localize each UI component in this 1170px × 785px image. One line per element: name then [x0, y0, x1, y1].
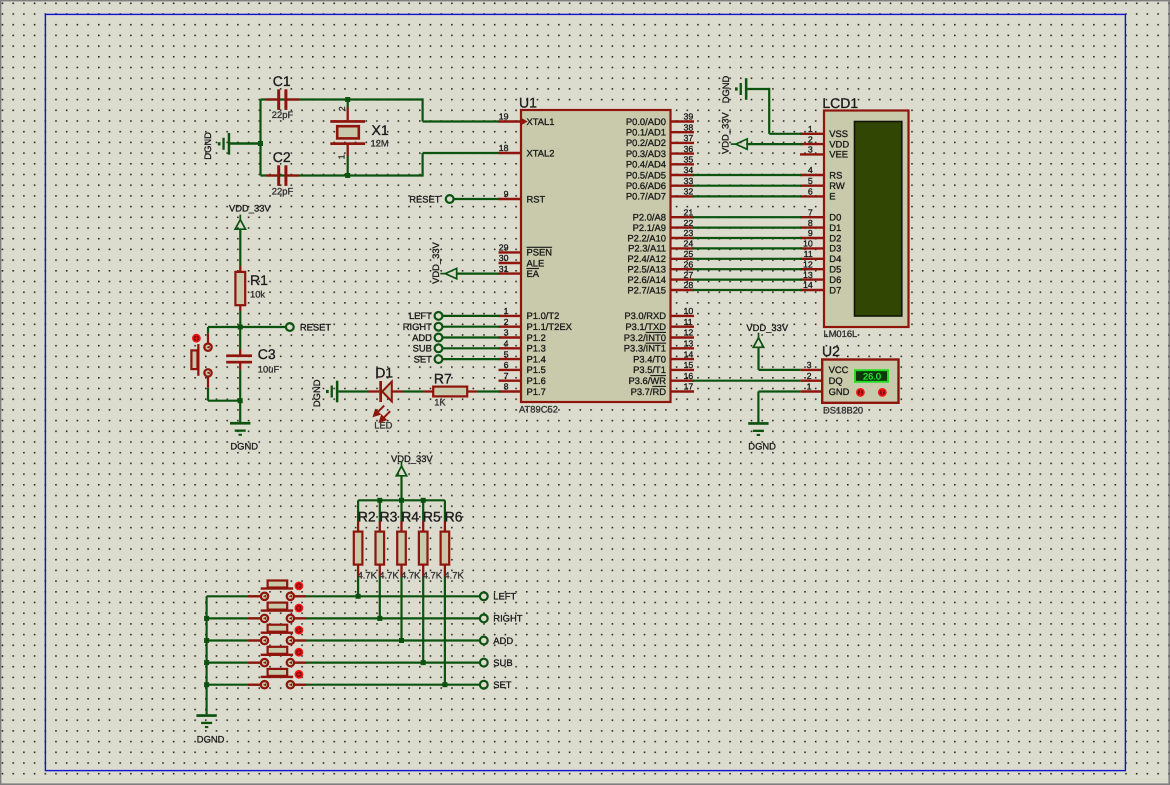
svg-text:12: 12	[803, 259, 813, 269]
node junction C3/button/ground	[238, 398, 243, 403]
node junction X1 pin2 / top wire	[345, 97, 350, 102]
svg-text:6: 6	[504, 360, 509, 370]
svg-text:P1.5: P1.5	[527, 364, 546, 375]
indicator red dot of ADD button	[295, 626, 304, 635]
svg-text:11: 11	[684, 317, 693, 327]
svg-text:15: 15	[684, 360, 694, 370]
svg-text:R2: R2	[358, 509, 376, 525]
U2 decrement button	[856, 388, 865, 397]
svg-text:RST: RST	[527, 193, 546, 204]
svg-text:5: 5	[504, 349, 509, 359]
svg-text:P2.4/A12: P2.4/A12	[627, 253, 666, 264]
svg-text:P3.4/T0: P3.4/T0	[633, 353, 666, 364]
wire U1 P3.6 to U2 DQ	[693, 380, 801, 382]
wires U1 P0.5-P0.7 to LCD RS/RW/E	[693, 174, 803, 176]
svg-text:9: 9	[504, 189, 509, 199]
svg-text:4: 4	[504, 339, 509, 349]
wire row SET (button to terminal)	[294, 684, 480, 686]
wire net XTAL2 bottom (C2 to corner to U1.XTAL2)	[261, 174, 423, 176]
resistor R6 4.7K	[444, 500, 446, 521]
svg-text:P0.4/AD4: P0.4/AD4	[626, 159, 666, 170]
svg-text:38: 38	[684, 122, 694, 132]
svg-text:LEFT: LEFT	[409, 310, 432, 321]
indicator red dot of reset button	[192, 334, 201, 343]
svg-text:DQ: DQ	[829, 375, 843, 386]
svg-text:28: 28	[684, 280, 694, 290]
svg-text:1: 1	[337, 154, 347, 159]
wire VDD bus above R2-R6	[358, 499, 445, 501]
node junction R5 to row	[421, 660, 426, 665]
svg-text:P2.0/A8: P2.0/A8	[633, 212, 666, 223]
svg-text:P0.6/AD6: P0.6/AD6	[626, 180, 666, 191]
svg-text:DGND: DGND	[311, 379, 322, 407]
svg-text:D2: D2	[829, 232, 841, 243]
svg-text:VDD_33V: VDD_33V	[229, 202, 271, 213]
svg-text:D6: D6	[829, 274, 841, 285]
svg-text:X1: X1	[372, 122, 389, 138]
wire net XTAL1 top (C1 to corner to U1.XTAL1)	[261, 98, 423, 100]
ground DGND (above LCD1)	[745, 78, 748, 100]
pushbutton ADD	[248, 639, 261, 641]
wire row LEFT (button to terminal)	[294, 595, 480, 597]
svg-text:10: 10	[684, 306, 694, 316]
svg-text:LEFT: LEFT	[493, 591, 516, 602]
svg-text:4: 4	[808, 165, 813, 175]
svg-text:D1: D1	[375, 364, 393, 380]
svg-text:R7: R7	[434, 370, 452, 386]
wire left button bus	[206, 596, 208, 714]
svg-text:12M: 12M	[371, 137, 389, 148]
svg-text:U2: U2	[822, 343, 840, 359]
wire D1 to R7	[403, 390, 425, 392]
wire row RIGHT (bus to button)	[207, 617, 262, 619]
svg-text:14: 14	[803, 280, 813, 290]
svg-text:17: 17	[684, 382, 694, 392]
svg-text:18: 18	[499, 143, 509, 153]
svg-text:9: 9	[808, 228, 813, 238]
LCD LCD1 LM016L body	[824, 111, 909, 328]
terminal RIGHT	[480, 615, 488, 623]
wire U2 GND to ground	[758, 390, 800, 392]
svg-text:26: 26	[684, 259, 694, 269]
svg-text:P1.2: P1.2	[527, 332, 546, 343]
svg-text:3: 3	[504, 328, 509, 338]
resistor R3 4.7K	[379, 500, 381, 521]
svg-text:24: 24	[684, 239, 694, 249]
svg-text:P3.5/T1: P3.5/T1	[633, 364, 666, 375]
LCD1 pins 1-14 with names	[800, 133, 824, 135]
svg-text:26.0: 26.0	[863, 372, 881, 382]
svg-text:5: 5	[808, 176, 813, 186]
svg-text:P0.3/AD3: P0.3/AD3	[626, 148, 666, 159]
clock input arrow at XTAL1	[522, 118, 528, 124]
terminal SUB	[480, 659, 488, 667]
resistor R5 4.7K	[422, 500, 424, 521]
terminal LEFT	[480, 592, 488, 600]
svg-text:SUB: SUB	[493, 657, 512, 668]
ground DGND (left of C1/C2)	[230, 142, 261, 144]
svg-text:P0.5/AD5: P0.5/AD5	[626, 169, 666, 180]
svg-text:23: 23	[684, 228, 694, 238]
svg-text:4.7K: 4.7K	[379, 570, 399, 581]
indicator red dot of SUB button	[295, 648, 304, 657]
svg-text:AT89C52: AT89C52	[519, 404, 558, 415]
node junction C1/C2/DGND	[258, 141, 263, 146]
svg-text:R6: R6	[445, 509, 463, 525]
capacitor C1	[266, 98, 277, 100]
svg-text:13: 13	[803, 270, 813, 280]
svg-text:RESET: RESET	[300, 321, 332, 332]
microcontroller U1 AT89C52 body	[521, 110, 671, 402]
svg-text:D7: D7	[829, 284, 841, 295]
crystal X1	[347, 100, 349, 108]
svg-text:10: 10	[803, 239, 813, 249]
svg-text:VDD_33V: VDD_33V	[391, 453, 433, 464]
svg-text:RIGHT: RIGHT	[403, 321, 432, 332]
ground DGND (below U2)	[748, 422, 768, 425]
indicator red dot of LEFT button	[295, 582, 304, 591]
svg-text:7: 7	[808, 207, 813, 217]
wire row ADD (button to terminal)	[294, 639, 480, 641]
svg-text:3: 3	[807, 360, 812, 370]
svg-text:P2.1/A9: P2.1/A9	[633, 222, 666, 233]
node junction X1 pin1 / bottom wire	[345, 173, 350, 178]
svg-text:R5: R5	[423, 509, 441, 525]
svg-text:PSEN: PSEN	[527, 247, 553, 258]
indicator red dot of RIGHT button	[295, 604, 304, 613]
svg-text:XTAL2: XTAL2	[527, 147, 555, 158]
svg-text:P2.5/A13: P2.5/A13	[627, 264, 666, 275]
pushbutton (reset, vertical)	[207, 327, 209, 333]
svg-text:P2.3/A11: P2.3/A11	[628, 243, 666, 254]
svg-text:D1: D1	[829, 222, 841, 233]
wire row SUB (bus to button)	[207, 661, 262, 663]
wire row LEFT (bus to button)	[207, 595, 262, 597]
svg-text:ADD: ADD	[493, 635, 513, 646]
ground DGND (bottom left)	[196, 714, 216, 717]
svg-text:2: 2	[808, 134, 813, 144]
svg-text:P3.1/TXD: P3.1/TXD	[625, 321, 666, 332]
node junction R1/C3/RESET	[238, 325, 243, 330]
svg-text:10k: 10k	[250, 288, 265, 299]
wire node row to RESET terminal	[208, 326, 286, 328]
wire R7 to U1 P1.7	[477, 390, 500, 392]
svg-text:D4: D4	[829, 253, 841, 264]
svg-text:3: 3	[808, 145, 813, 155]
svg-text:RS: RS	[829, 169, 842, 180]
svg-text:R3: R3	[380, 509, 398, 525]
node junction R6 to row	[442, 682, 447, 687]
svg-text:SET: SET	[414, 353, 433, 364]
svg-text:P3.2/INT0: P3.2/INT0	[624, 332, 666, 343]
svg-text:LM016L: LM016L	[823, 328, 857, 339]
svg-text:12: 12	[684, 328, 694, 338]
wire row SET (bus to button)	[207, 684, 262, 686]
svg-text:DGND: DGND	[748, 441, 776, 452]
svg-text:P3.6/WR: P3.6/WR	[628, 375, 666, 386]
svg-text:19: 19	[499, 112, 509, 122]
svg-text:R4: R4	[401, 509, 419, 525]
wire node to C3	[239, 327, 241, 349]
wire node to DGND	[239, 401, 241, 423]
svg-text:P2.7/A15: P2.7/A15	[627, 284, 666, 295]
node junctions on left bus	[204, 616, 209, 621]
svg-text:SET: SET	[493, 679, 512, 690]
svg-text:1: 1	[808, 124, 813, 134]
U1 left pins with numbers and names	[499, 120, 522, 122]
svg-text:P2.2/A10: P2.2/A10	[627, 232, 666, 243]
node junctions on VDD bus	[377, 498, 382, 503]
svg-text:DGND: DGND	[720, 75, 731, 103]
svg-text:35: 35	[684, 155, 694, 165]
svg-text:2: 2	[807, 371, 812, 381]
svg-text:D3: D3	[829, 243, 841, 254]
svg-text:P1.0/T2: P1.0/T2	[527, 310, 560, 321]
svg-text:P3.3/INT1: P3.3/INT1	[624, 343, 666, 354]
terminal SET	[480, 681, 488, 689]
svg-text:DGND: DGND	[202, 132, 213, 160]
svg-text:ADD: ADD	[412, 332, 432, 343]
wire R1 to node	[239, 311, 241, 327]
wire row ADD (bus to button)	[207, 639, 262, 641]
svg-text:RIGHT: RIGHT	[493, 613, 522, 624]
resistor R1 10k	[239, 266, 241, 272]
U2 pins 1-3 with names	[801, 369, 823, 371]
svg-text:34: 34	[684, 165, 694, 175]
svg-text:31: 31	[499, 264, 509, 274]
svg-text:4.7K: 4.7K	[444, 570, 464, 581]
svg-text:7: 7	[504, 371, 509, 381]
terminals LEFT/RIGHT/ADD/SUB/SET to U1 P1.0-P1.4	[443, 315, 500, 317]
svg-text:E: E	[829, 191, 835, 202]
capacitor C3 10uF	[226, 354, 252, 357]
svg-text:29: 29	[499, 243, 509, 253]
svg-text:VDD_33V: VDD_33V	[430, 241, 441, 283]
svg-text:8: 8	[808, 218, 813, 228]
terminal ADD	[480, 637, 488, 645]
pushbutton RIGHT	[248, 617, 261, 619]
svg-text:GND: GND	[829, 386, 850, 397]
svg-text:P1.4: P1.4	[527, 353, 546, 364]
svg-text:D5: D5	[829, 264, 841, 275]
svg-text:22: 22	[684, 218, 694, 228]
svg-text:36: 36	[684, 144, 694, 154]
svg-text:13: 13	[684, 339, 694, 349]
resistor R7 1K	[424, 390, 433, 392]
svg-text:6: 6	[808, 187, 813, 197]
svg-text:EA: EA	[527, 268, 540, 279]
svg-text:P0.7/AD7: P0.7/AD7	[626, 191, 666, 202]
svg-text:27: 27	[684, 270, 694, 280]
svg-text:XTAL1: XTAL1	[527, 116, 555, 127]
svg-text:P1.6: P1.6	[527, 375, 546, 386]
svg-text:P0.1/AD1: P0.1/AD1	[626, 127, 666, 138]
svg-text:22pF: 22pF	[272, 109, 294, 120]
svg-text:8: 8	[504, 382, 509, 392]
wires U1 P2.0-P2.7 to LCD D0-D7	[693, 216, 803, 218]
svg-text:1: 1	[807, 382, 812, 392]
power VDD_33V (to LCD1 VDD)	[731, 143, 737, 145]
svg-text:RESET: RESET	[409, 193, 441, 204]
svg-text:1K: 1K	[434, 397, 446, 408]
svg-text:P1.7: P1.7	[527, 386, 546, 397]
resistor R2 4.7K	[357, 500, 359, 521]
node junction R4 to row	[399, 638, 404, 643]
resistor R4 4.7K	[400, 500, 402, 521]
LED D1 emission arrows	[374, 406, 390, 422]
svg-text:D0: D0	[829, 212, 841, 223]
svg-text:P1.3: P1.3	[527, 343, 546, 354]
svg-text:37: 37	[684, 133, 694, 143]
ground DGND (left of D1)	[336, 381, 339, 403]
svg-text:SUB: SUB	[413, 343, 432, 354]
svg-text:25: 25	[684, 249, 694, 259]
U1 right pins with numbers and names	[671, 120, 695, 122]
indicator red dot of SET button	[295, 670, 304, 679]
wire left bus C1-C2	[259, 100, 261, 176]
svg-text:30: 30	[499, 253, 509, 263]
LED D1	[369, 390, 380, 392]
svg-text:22pF: 22pF	[272, 185, 294, 196]
svg-text:32: 32	[684, 187, 694, 197]
U2 increment button	[878, 388, 887, 397]
terminal RESET (to U1 RST)	[454, 198, 500, 200]
power VDD_33V (at U1 EA pin)	[456, 273, 500, 275]
svg-text:ALE: ALE	[527, 257, 545, 268]
wire row RIGHT (button to terminal)	[294, 617, 480, 619]
svg-text:DS18B20: DS18B20	[823, 404, 863, 415]
pushbutton LEFT	[248, 595, 261, 597]
pushbutton SUB	[248, 661, 261, 663]
svg-text:P2.6/A14: P2.6/A14	[627, 274, 666, 285]
svg-text:21: 21	[684, 207, 694, 217]
svg-text:C3: C3	[258, 346, 276, 362]
svg-text:2: 2	[337, 106, 347, 111]
svg-text:P0.2/AD2: P0.2/AD2	[626, 137, 666, 148]
svg-text:VDD_33V: VDD_33V	[720, 112, 731, 154]
svg-text:VDD_33V: VDD_33V	[746, 322, 788, 333]
svg-text:4.7K: 4.7K	[401, 570, 421, 581]
svg-text:4.7K: 4.7K	[358, 570, 378, 581]
svg-text:33: 33	[684, 176, 694, 186]
wire row SUB (button to terminal)	[294, 661, 480, 663]
svg-text:VCC: VCC	[829, 364, 849, 375]
node junction R3 to row	[377, 616, 382, 621]
terminal RESET (near R1)	[286, 323, 294, 331]
sensor U2 DS18B20 body	[822, 360, 898, 403]
wire DGND to D1	[338, 390, 368, 392]
svg-text:P3.7/RD: P3.7/RD	[631, 386, 667, 397]
svg-text:P0.0/AD0: P0.0/AD0	[626, 116, 666, 127]
U2 temperature display 26.0	[855, 370, 888, 382]
svg-text:2: 2	[504, 317, 509, 327]
ground DGND (below C3)	[230, 422, 250, 425]
capacitor C2	[266, 174, 277, 176]
wire button/C3 to ground row	[208, 400, 240, 402]
svg-text:4.7K: 4.7K	[423, 570, 443, 581]
svg-text:10uF: 10uF	[258, 364, 280, 375]
svg-text:RW: RW	[829, 180, 845, 191]
svg-text:11: 11	[804, 249, 813, 259]
svg-text:14: 14	[684, 349, 694, 359]
svg-text:1: 1	[504, 306, 509, 316]
svg-text:LCD1: LCD1	[822, 95, 858, 111]
svg-text:P3.0/RXD: P3.0/RXD	[624, 310, 666, 321]
svg-text:R1: R1	[250, 272, 268, 288]
node junction R2 to row	[356, 594, 361, 599]
svg-text:P1.1/T2EX: P1.1/T2EX	[527, 321, 573, 332]
svg-text:39: 39	[684, 112, 694, 122]
svg-text:16: 16	[684, 371, 694, 381]
svg-text:DGND: DGND	[197, 733, 225, 744]
pushbutton SET	[248, 684, 261, 686]
svg-text:VEE: VEE	[829, 149, 848, 160]
svg-text:C2: C2	[273, 149, 291, 165]
svg-text:DGND: DGND	[230, 440, 258, 451]
svg-text:U1: U1	[519, 95, 537, 111]
svg-text:C1: C1	[273, 73, 291, 89]
